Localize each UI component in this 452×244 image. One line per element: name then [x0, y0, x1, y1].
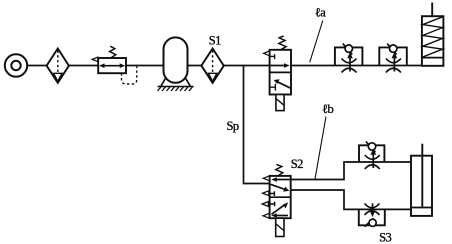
valve V1 spring — [279, 36, 286, 50]
valve V1 exhaust silencer — [276, 95, 284, 111]
valve S2 top position blocked port — [270, 191, 275, 196]
flow control FC2 — [379, 44, 407, 73]
valve V1 flow path arrow — [270, 63, 290, 68]
cylinder C1 spring — [423, 17, 443, 57]
cylinder C1 body — [422, 16, 444, 66]
cylinder C1 rod — [431, 3, 433, 17]
wire leader line to la — [310, 21, 323, 63]
valve S2 exhaust triangles left — [262, 176, 269, 218]
compressor source — [5, 54, 27, 76]
svg-text:ℓa: ℓa — [315, 5, 326, 19]
filter S1 — [201, 49, 223, 83]
svg-text:Sp: Sp — [226, 119, 238, 133]
ground support hatching — [158, 87, 194, 92]
valve S2 body — [270, 176, 291, 218]
svg-text:S2: S2 — [291, 157, 303, 171]
wire main supply line — [27, 65, 422, 67]
air receiver tank — [161, 37, 191, 86]
regulator — [92, 46, 137, 84]
valve V1 exhaust arrow top-left — [264, 51, 275, 59]
wire S2 output line A — [291, 162, 411, 180]
valve V1 lower crossed path — [270, 79, 291, 90]
filter F1 — [47, 49, 69, 83]
cylinder C2 rod — [421, 144, 423, 208]
valve S2 exhaust silencer — [276, 218, 284, 236]
wire Sp branch vertical — [244, 66, 270, 184]
wire S2 output line B — [291, 190, 411, 209]
flow control S3 bottom branch — [359, 203, 385, 227]
flow control FC3 top branch — [359, 142, 384, 170]
valve V1 body — [270, 50, 291, 95]
valve S2 bottom position paths — [271, 202, 288, 218]
valve S2 top position paths — [271, 177, 291, 191]
svg-text:S1: S1 — [209, 34, 221, 48]
valve S2 bottom position blocked port — [270, 202, 275, 207]
svg-text:S3: S3 — [379, 231, 391, 244]
valve S2 spring — [276, 164, 283, 176]
cylinder C2 body — [411, 156, 432, 216]
svg-text:ℓb: ℓb — [322, 102, 333, 116]
wire leader line to lb — [315, 117, 326, 180]
flow control FC1 — [335, 44, 363, 73]
